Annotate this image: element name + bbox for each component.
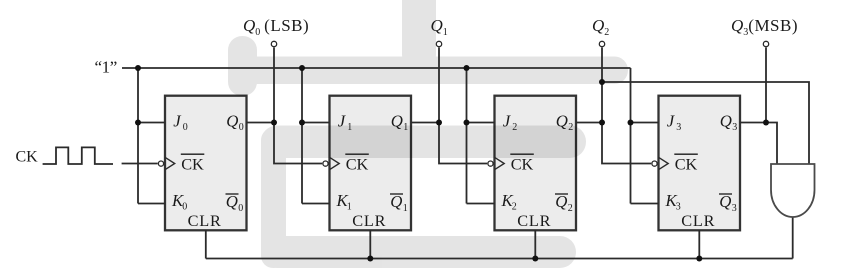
flip-flop U2 body bbox=[330, 96, 412, 231]
node J2 feed bbox=[464, 120, 470, 126]
svg-text:Q: Q bbox=[720, 112, 732, 131]
svg-text:Q: Q bbox=[226, 192, 238, 211]
svg-text:2: 2 bbox=[512, 122, 517, 133]
watermark (decorative) bbox=[228, 0, 628, 268]
svg-text:1: 1 bbox=[347, 201, 352, 212]
clock wedge U1 bbox=[165, 157, 175, 169]
wire FF4 J/K feed vertical (bus end corner) bbox=[630, 68, 632, 204]
node Q3 bbox=[763, 120, 769, 126]
output terminal Q3 bbox=[763, 41, 768, 46]
clock bubble U2 bbox=[323, 161, 328, 166]
svg-text:“1”: “1” bbox=[95, 58, 117, 77]
svg-text:3: 3 bbox=[732, 203, 737, 214]
clock bubble U3 bbox=[488, 161, 493, 166]
svg-text:CK: CK bbox=[181, 154, 204, 173]
svg-text:0: 0 bbox=[183, 122, 188, 133]
svg-text:Q: Q bbox=[226, 112, 238, 131]
clock wedge U2 bbox=[330, 157, 340, 169]
wire AND gate output to CLR bus bbox=[792, 217, 794, 259]
svg-text:Q0 (LSB): Q0 (LSB) bbox=[243, 16, 309, 38]
clock wedge U4 bbox=[659, 157, 669, 169]
flip-flop U1 labels bbox=[171, 112, 244, 231]
clock wedge U3 bbox=[495, 157, 505, 169]
svg-text:CK: CK bbox=[346, 154, 369, 173]
wire Q3 branch to AND gate left input bbox=[766, 123, 777, 165]
wire "1" bus bbox=[122, 67, 631, 69]
svg-text:3: 3 bbox=[732, 122, 737, 133]
svg-text:0: 0 bbox=[238, 203, 243, 214]
wire FF2 J/K feed vertical bbox=[301, 68, 303, 204]
svg-text:CK: CK bbox=[675, 154, 698, 173]
node CLR-FF4 bbox=[696, 256, 702, 262]
svg-text:2: 2 bbox=[568, 122, 573, 133]
wire K2 input bbox=[467, 203, 495, 205]
wire J3 input bbox=[631, 122, 659, 124]
wire FF3 J/K feed vertical bbox=[466, 68, 468, 204]
wire Q2 terminal line and to FF4 clock bbox=[602, 48, 651, 164]
wire FF1 J/K feed vertical bbox=[137, 68, 139, 204]
node Q0 bbox=[271, 120, 277, 126]
svg-text:3: 3 bbox=[676, 122, 681, 133]
svg-text:1: 1 bbox=[347, 122, 352, 133]
clock bubble U1 bbox=[158, 161, 163, 166]
node bus-FF2 bbox=[299, 65, 305, 71]
node J3 feed bbox=[628, 120, 634, 126]
svg-text:2: 2 bbox=[512, 201, 517, 212]
flip-flop U4 labels bbox=[665, 112, 738, 231]
wire J1 input bbox=[302, 122, 330, 124]
node CLR-FF3 bbox=[532, 256, 538, 262]
svg-text:CK: CK bbox=[511, 154, 534, 173]
svg-text:Q: Q bbox=[391, 112, 403, 131]
labels top bbox=[16, 16, 799, 165]
wire FF2 CLR stub bbox=[369, 230, 371, 259]
wire Q1 output bbox=[411, 122, 439, 124]
svg-text:0: 0 bbox=[239, 122, 244, 133]
wire J0 input bbox=[138, 122, 165, 124]
flip-flop U1 body bbox=[165, 96, 247, 231]
wire Q1 terminal line and to FF3 clock bbox=[439, 48, 487, 164]
output terminal Q1 bbox=[436, 41, 441, 46]
flip-flop U3 labels bbox=[501, 112, 574, 231]
svg-text:Q: Q bbox=[719, 192, 731, 211]
clock bubble U4 bbox=[652, 161, 657, 166]
svg-text:CLR: CLR bbox=[517, 211, 551, 230]
wire CLR bus bbox=[206, 258, 793, 260]
wire J2 input bbox=[467, 122, 495, 124]
wire Q2 branch to AND gate right input bbox=[602, 82, 809, 164]
CK input waveform symbol bbox=[43, 147, 113, 164]
svg-text:1: 1 bbox=[403, 122, 408, 133]
wire Q0 terminal line and to FF2 clock bbox=[274, 48, 322, 164]
svg-text:CLR: CLR bbox=[681, 211, 715, 230]
wire Q2 output bbox=[576, 122, 602, 124]
node J1 feed bbox=[299, 120, 305, 126]
svg-text:3: 3 bbox=[676, 201, 681, 212]
svg-text:CLR: CLR bbox=[352, 211, 386, 230]
svg-text:Q3(MSB): Q3(MSB) bbox=[731, 16, 798, 38]
wire Q3 terminal line bbox=[765, 48, 767, 123]
node bus-FF1 bbox=[135, 65, 141, 71]
svg-text:CLR: CLR bbox=[188, 211, 222, 230]
wire K1 input bbox=[302, 203, 330, 205]
svg-text:CK: CK bbox=[16, 148, 39, 165]
wire K0 input bbox=[138, 203, 165, 205]
node Q2-AND branch bbox=[599, 79, 605, 85]
svg-text:2: 2 bbox=[568, 203, 573, 214]
wire FF3 CLR stub bbox=[534, 230, 536, 259]
node J0 feed bbox=[135, 120, 141, 126]
output terminal Q2 bbox=[599, 41, 604, 46]
svg-text:Q: Q bbox=[390, 192, 402, 211]
wire Q3 output bbox=[740, 122, 767, 124]
wire K3 input bbox=[631, 203, 659, 205]
svg-text:1: 1 bbox=[403, 203, 408, 214]
wire FF1 CLR stub bbox=[205, 230, 207, 259]
wire CK source to FF1 clock bbox=[122, 163, 158, 165]
wire FF4 CLR stub bbox=[698, 230, 700, 259]
AND gate U5 bbox=[771, 164, 815, 217]
node CLR-FF2 bbox=[367, 256, 373, 262]
wire Q0 output bbox=[247, 122, 275, 124]
flip-flop U3 body bbox=[495, 96, 577, 231]
svg-text:Q: Q bbox=[555, 192, 567, 211]
node Q1 bbox=[436, 120, 442, 126]
node Q2 bbox=[599, 120, 605, 126]
output terminal Q0 bbox=[271, 41, 276, 46]
svg-text:0: 0 bbox=[182, 201, 187, 212]
flip-flop U2 labels bbox=[336, 112, 409, 231]
flip-flop U4 body bbox=[659, 96, 741, 231]
node bus-FF3 bbox=[464, 65, 470, 71]
svg-text:Q: Q bbox=[556, 112, 568, 131]
